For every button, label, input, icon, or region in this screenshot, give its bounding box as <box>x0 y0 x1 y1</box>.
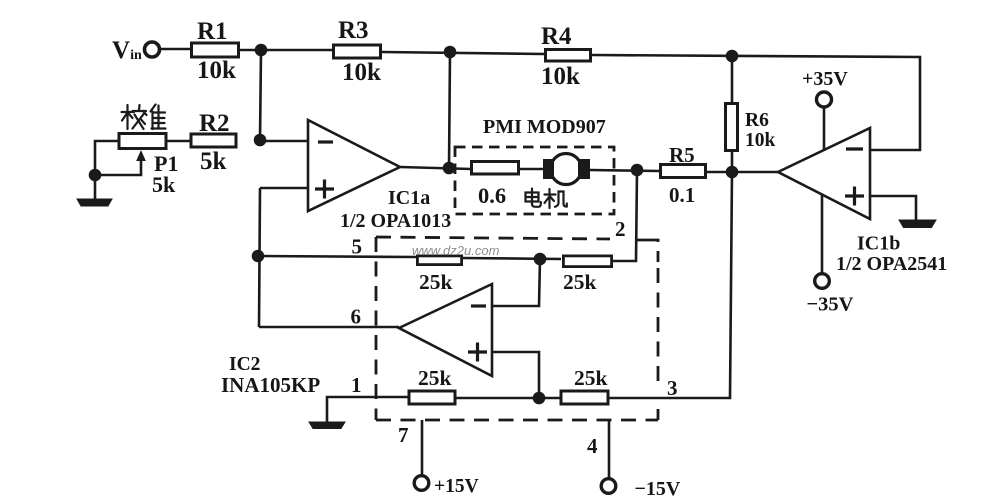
P1 wiper arrow head <box>136 150 146 161</box>
svg-text:25k: 25k <box>574 366 608 390</box>
ground G2 bar <box>309 422 345 429</box>
wire vertical to IC2 output node <box>259 188 260 327</box>
resistor 25k row5-left <box>417 256 461 265</box>
dashed box IC2 right edge <box>657 268 660 388</box>
resistor R5 <box>661 165 706 178</box>
svg-text:0.1: 0.1 <box>669 183 695 207</box>
svg-text:R1: R1 <box>197 18 228 45</box>
op-amp U1 IC1a triangle <box>308 120 400 211</box>
resistor 0.6 (motor series) <box>472 162 519 175</box>
dashed box IC2 left edge <box>375 237 378 420</box>
wire IC2 inverting input <box>493 259 540 306</box>
svg-text:10k: 10k <box>342 59 381 86</box>
svg-text:25k: 25k <box>418 366 452 390</box>
ground G1 bar <box>77 199 112 206</box>
wire 25k to node J <box>461 258 561 259</box>
hanzi 机 (motor char 2) <box>545 189 567 208</box>
dashed box IC2 bottom edge <box>376 419 658 422</box>
IC2 plus sign <box>468 343 487 362</box>
svg-text:+35V: +35V <box>802 68 848 90</box>
wire IC2 noninverting input <box>493 352 539 398</box>
wire pin6 row to IC2 apex <box>259 326 399 329</box>
resistor R2 <box>191 134 236 147</box>
svg-text:INA105KP: INA105KP <box>221 373 320 397</box>
dashed box IC2 top right corner <box>636 240 658 262</box>
wire 25k to node K <box>456 397 560 400</box>
node D junction dot (R5/R6/IC1b) <box>727 167 737 177</box>
node G junction dot (row5 tap) <box>253 251 263 261</box>
node F junction dot (P1 wiper/ground) <box>90 170 100 180</box>
motor M brush left <box>543 159 554 179</box>
node K junction dot (pin1 row) <box>534 393 544 403</box>
IC2 minus sign <box>471 304 486 307</box>
motor M body <box>551 154 582 185</box>
svg-text:+15V: +15V <box>434 476 479 497</box>
IC1a plus sign <box>315 180 334 199</box>
wire 0.6 to motor <box>519 168 545 171</box>
svg-text:R6: R6 <box>745 110 769 131</box>
svg-text:7: 7 <box>398 423 409 447</box>
svg-text:IC1b: IC1b <box>857 233 900 255</box>
terminal +15V <box>414 476 429 491</box>
wire R3 to R4 <box>382 52 544 54</box>
node A junction dot <box>256 45 266 55</box>
wire node D to IC1b apex <box>732 171 778 174</box>
svg-text:6: 6 <box>351 305 362 329</box>
node I junction dot (pin2 tap) <box>632 165 642 175</box>
resistor R3 <box>334 45 381 58</box>
wire +35V supply pin <box>823 107 826 151</box>
node C junction dot (R4/R6) <box>727 51 737 61</box>
svg-text:IC1a: IC1a <box>388 187 430 209</box>
resistor R1 <box>192 43 239 57</box>
terminal Vin <box>145 42 160 57</box>
svg-text:R5: R5 <box>669 143 695 167</box>
svg-text:10k: 10k <box>541 63 580 90</box>
svg-text:R2: R2 <box>199 110 230 137</box>
motor M brush right <box>578 159 590 179</box>
wire vertical node A to R2 junction <box>260 50 261 140</box>
resistor 25k row5-right <box>563 256 611 267</box>
IC1b plus sign <box>845 187 864 206</box>
node E junction dot (R2/IC1a inverting) <box>255 135 265 145</box>
wire R6 to node D <box>731 152 734 172</box>
wire node E to IC1a inverting input <box>260 140 308 143</box>
IC1a minus sign <box>318 140 333 143</box>
hanzi 校 (calibration char 1) <box>122 105 147 129</box>
terminal +35V <box>817 92 832 107</box>
wire R4 to top-right corner <box>592 55 920 150</box>
potentiometer P1 body <box>119 134 166 149</box>
svg-text:www.dz2u.com: www.dz2u.com <box>412 243 500 258</box>
wire R5 to node D <box>706 171 732 174</box>
svg-text:R4: R4 <box>541 23 572 50</box>
svg-text:3: 3 <box>667 376 678 400</box>
node J junction dot (IC2 inverting tap) <box>535 254 545 264</box>
wire node C down to R6 <box>731 56 734 103</box>
svg-text:−35V: −35V <box>807 294 854 316</box>
svg-text:R3: R3 <box>338 17 369 44</box>
svg-text:IC2: IC2 <box>229 354 260 375</box>
svg-text:25k: 25k <box>563 270 597 294</box>
resistor 25k pin1-right <box>561 391 608 404</box>
terminal -15V <box>601 479 616 494</box>
wire pin1 row left <box>327 397 408 423</box>
svg-text:1: 1 <box>351 373 362 397</box>
wire pin7 supply <box>421 420 424 476</box>
wire P1 left to ground <box>95 141 118 199</box>
wire -35V supply pin <box>821 195 824 274</box>
svg-text:2: 2 <box>615 217 626 241</box>
wire IC1b noninverting to ground <box>870 196 916 220</box>
resistor 25k pin1-left <box>409 391 455 404</box>
resistor R6 <box>726 104 738 151</box>
dashed box PMI MOD907 <box>455 147 614 214</box>
svg-text:−15V: −15V <box>635 478 681 500</box>
wire R2 to P1 <box>167 140 190 143</box>
wire row5 from node G to 25k <box>258 256 416 257</box>
wire pin3 row <box>609 397 670 400</box>
dashed box IC2 INA105KP top edge <box>376 237 610 239</box>
svg-text:5: 5 <box>352 235 363 259</box>
hanzi 准 (calibration char 2) <box>141 105 166 130</box>
svg-text:1/2 OPA2541: 1/2 OPA2541 <box>836 253 947 275</box>
svg-text:10k: 10k <box>745 130 776 151</box>
dashed box IC2 right edge lower part <box>657 409 660 420</box>
wire Vin to R1 <box>160 48 190 51</box>
op-amp U3 IC1b triangle <box>778 128 870 219</box>
svg-text:0.6: 0.6 <box>478 183 506 208</box>
svg-text:Vin: Vin <box>112 37 142 64</box>
wire IC1a noninverting input <box>260 187 308 190</box>
hanzi 电 (motor char 1) <box>526 189 541 207</box>
svg-text:10k: 10k <box>197 57 236 84</box>
resistor R4 <box>546 50 591 62</box>
node H junction dot (feedback/output) <box>444 163 454 173</box>
svg-text:5k: 5k <box>152 172 176 197</box>
ground G3 bar <box>899 220 936 228</box>
wire P1 wiper <box>95 160 141 175</box>
node B junction dot <box>445 47 455 57</box>
wire IC1a output <box>400 167 471 169</box>
svg-text:5k: 5k <box>200 148 227 175</box>
wire R1 to R3 <box>237 49 332 52</box>
wire node B down to node H <box>449 52 450 168</box>
wire pin2 drop <box>613 170 637 261</box>
wire motor to R5 <box>590 170 660 171</box>
op-amp U2 IC2 triangle <box>399 284 492 376</box>
svg-text:1/2 OPA1013: 1/2 OPA1013 <box>340 210 451 232</box>
svg-text:PMI MOD907: PMI MOD907 <box>483 116 606 138</box>
IC1b minus sign <box>846 147 863 150</box>
svg-text:4: 4 <box>587 434 598 458</box>
terminal -35V <box>815 274 830 289</box>
svg-text:25k: 25k <box>419 270 453 294</box>
wire node D down and left to pin 3 <box>670 172 732 398</box>
wire pin4 supply <box>608 420 611 479</box>
